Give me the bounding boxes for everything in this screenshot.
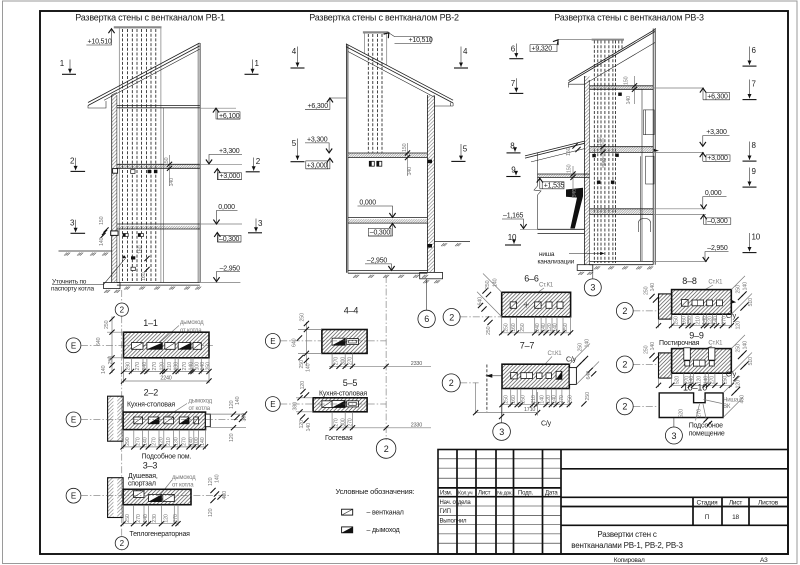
section mark 2 right [246, 157, 261, 172]
svg-text:140: 140 [650, 283, 656, 292]
svg-text:120: 120 [299, 420, 305, 429]
svg-text:270: 270 [710, 376, 716, 385]
svg-text:Уточнить по: Уточнить по [52, 279, 87, 286]
svg-text:250: 250 [104, 320, 110, 329]
right dims 3-3 [210, 488, 215, 493]
svg-text:дымоход: дымоход [180, 320, 204, 326]
level -2,950 [217, 272, 241, 281]
slab +3,000 PB-3 [590, 147, 654, 153]
svg-text:0,000: 0,000 [218, 204, 235, 211]
svg-text:640: 640 [478, 297, 484, 306]
left dims 1-1 [107, 317, 124, 374]
level +3,300 PB-2 [305, 143, 329, 152]
vent sq1 6-6 [510, 302, 516, 308]
axis to bar 7-7 [460, 382, 478, 384]
section mark 2 left [70, 157, 85, 172]
wall vent marks PB-2 [428, 160, 432, 164]
slab +6,100 [117, 105, 200, 107]
svg-text:140: 140 [142, 362, 148, 371]
legend smoke symbol [342, 527, 353, 533]
level +3,000 [217, 169, 241, 180]
svg-text:3–3: 3–3 [143, 461, 158, 471]
axis circle 6 [418, 310, 435, 327]
svg-text:ВК: ВК [723, 404, 731, 410]
vent sq3 6-6 [546, 302, 552, 308]
svg-text:640: 640 [292, 338, 298, 347]
svg-text:290: 290 [125, 437, 131, 446]
black wedge PB-3 [566, 188, 583, 229]
bar 1-1 [124, 332, 210, 358]
notch 2 9-9 [708, 348, 715, 360]
svg-text:–1,165: –1,165 [503, 213, 524, 220]
svg-text:270: 270 [152, 362, 158, 371]
section mark 3 left [70, 218, 85, 233]
vent blocks at +3,000 [113, 169, 118, 174]
svg-text:300: 300 [341, 357, 347, 366]
svg-text:270: 270 [334, 418, 340, 427]
svg-text:5: 5 [463, 145, 468, 154]
svg-text:250: 250 [504, 395, 510, 404]
svg-text:– вентканал: – вентканал [367, 509, 404, 516]
svg-text:4–4: 4–4 [344, 306, 359, 316]
svg-text:270: 270 [182, 362, 188, 371]
svg-text:160: 160 [141, 272, 147, 281]
svg-text:+3,000: +3,000 [220, 173, 241, 180]
garage roof ticks [572, 143, 577, 148]
svg-text:Условные обозначения:: Условные обозначения: [336, 487, 415, 496]
slab 0,000 PB-3 [590, 209, 654, 215]
svg-text:270: 270 [173, 514, 179, 523]
chimney left edge [118, 28, 120, 282]
roof inner line PB-3 [585, 42, 656, 84]
basement floor PB-3 [590, 261, 654, 264]
svg-text:140: 140 [602, 158, 608, 167]
svg-text:2: 2 [120, 539, 125, 548]
svg-text:Ст.К1: Ст.К1 [708, 280, 723, 286]
axis to bar 6-6 [460, 316, 501, 318]
svg-text:9–9: 9–9 [689, 330, 704, 340]
left line of niche PB-3 [537, 153, 539, 230]
level +6,100 [200, 107, 236, 109]
vent o1 3-3 [134, 491, 145, 498]
chimney edges PB-2 [364, 33, 386, 65]
svg-text:150: 150 [597, 137, 603, 146]
right dims 8-8 [731, 276, 752, 314]
svg-text:7–7: 7–7 [520, 340, 535, 350]
svg-text:Нач. отдела: Нач. отдела [440, 500, 472, 506]
svg-text:помещение: помещение [689, 430, 725, 437]
svg-text:10: 10 [508, 233, 517, 242]
right dims 10-10 [723, 376, 743, 418]
level -2,950 PB-3 [653, 260, 707, 262]
wall block 3-3 [108, 478, 114, 518]
svg-text:140: 140 [493, 278, 499, 287]
right footing PB-2 [420, 272, 443, 278]
vent double 9-9 [694, 360, 706, 366]
svg-text:Стадия: Стадия [697, 500, 719, 507]
cross mark 6-6 [524, 302, 529, 307]
axis circle 2 top [115, 303, 128, 316]
svg-text:Дата: Дата [545, 491, 558, 497]
left dims 4-4 [298, 322, 322, 366]
ground tufts under basement floor [124, 287, 130, 290]
left wall edge PB-2 [346, 44, 348, 273]
svg-text:140: 140 [743, 282, 749, 291]
svg-text:дымоход: дымоход [172, 475, 196, 481]
axis circle 2 of 8-8 [616, 303, 633, 320]
axis circle E 4-4 [265, 334, 280, 349]
smoke o4 [179, 417, 189, 424]
svg-text:+1,535: +1,535 [544, 182, 565, 189]
svg-text:400: 400 [740, 395, 746, 404]
vent o3 3-3 [163, 494, 175, 501]
tail 2-2 [206, 414, 211, 427]
section mark 9 left [506, 166, 520, 177]
svg-text:250: 250 [125, 514, 131, 523]
axis to bar 9-9 [633, 363, 658, 365]
svg-text:Кухня-столовая: Кухня-столовая [127, 401, 175, 408]
chimney dashed channels PB-3 [594, 41, 622, 264]
svg-text:250: 250 [723, 376, 729, 385]
svg-text:3: 3 [671, 431, 676, 441]
vent double 7-7 [521, 373, 533, 379]
svg-text:+6,300: +6,300 [308, 103, 329, 110]
smoke opening 7-7 [556, 371, 562, 379]
svg-text:130: 130 [174, 362, 180, 371]
axis line E 4-4 [280, 340, 386, 342]
wall footing [104, 283, 120, 289]
svg-text:2: 2 [384, 444, 389, 454]
svg-text:ГИП: ГИП [440, 509, 451, 515]
svg-text:160: 160 [138, 245, 144, 254]
bar 6-6 [502, 292, 571, 317]
svg-text:140: 140 [169, 178, 175, 187]
svg-text:270: 270 [182, 437, 188, 446]
axis line E [81, 344, 214, 346]
svg-text:120: 120 [160, 362, 166, 371]
svg-text:8–8: 8–8 [682, 276, 697, 286]
svg-text:140: 140 [553, 323, 559, 332]
svg-text:120: 120 [300, 381, 306, 390]
bottom dims 1-1 [124, 358, 210, 383]
house right edge [197, 44, 199, 283]
svg-text:250: 250 [486, 326, 492, 335]
bottom dims 6-6 [502, 317, 571, 335]
svg-text:2240: 2240 [160, 376, 171, 382]
svg-text:120: 120 [208, 477, 214, 486]
svg-text:140: 140 [572, 189, 578, 198]
bottom dims 4-4 [329, 353, 431, 368]
chimney cap [114, 26, 162, 28]
svg-text:140: 140 [306, 363, 312, 372]
ground tufts PB-3 [594, 266, 600, 269]
axis circle 2 of 10-10 [616, 398, 633, 415]
svg-text:8: 8 [752, 141, 757, 150]
footing PB-3 [577, 265, 593, 271]
interior line PB-3 [640, 89, 642, 261]
svg-text:2: 2 [256, 157, 261, 166]
svg-text:510: 510 [748, 298, 754, 307]
svg-text:Лист: Лист [478, 491, 491, 497]
svg-text:Изм.: Изм. [440, 491, 453, 497]
svg-text:140: 140 [215, 474, 221, 483]
bar 9-9 [672, 349, 732, 374]
ground line right PB-2 [435, 241, 471, 243]
vent opening 4-4 [347, 339, 359, 345]
svg-text:9: 9 [752, 167, 757, 176]
bar 5-5 [313, 398, 367, 412]
axis circle E 2-2 [66, 412, 81, 427]
svg-text:2330: 2330 [411, 422, 422, 428]
section mark 8 right [743, 141, 757, 161]
svg-text:С/у: С/у [541, 421, 552, 428]
axis line to circle 6 [426, 279, 428, 311]
svg-text:270: 270 [348, 418, 354, 427]
svg-text:520: 520 [675, 376, 681, 385]
svg-text:–2,950: –2,950 [220, 265, 241, 272]
leader to boiler note [52, 258, 126, 285]
chimney cap PB-2 [363, 31, 389, 33]
svg-text:270: 270 [722, 316, 728, 325]
svg-text:6: 6 [511, 45, 516, 54]
svg-text:10–10: 10–10 [683, 382, 707, 392]
svg-text:Лист: Лист [729, 500, 743, 507]
level -1,165 PB-3 [502, 219, 524, 228]
svg-text:400: 400 [222, 491, 228, 500]
svg-text:1: 1 [60, 59, 65, 68]
right edge PB-3 [653, 28, 655, 265]
axis circle E 5-5 [265, 397, 280, 412]
svg-text:130: 130 [174, 437, 180, 446]
svg-text:250: 250 [300, 313, 306, 322]
bottom dims 2-2 [123, 430, 205, 449]
vent blocks below +3000 slab PB-2 [369, 161, 374, 166]
svg-text:250: 250 [644, 286, 650, 295]
wall block 2-2 [108, 396, 114, 441]
section mark 4 right [454, 47, 468, 69]
section mark 4 left [291, 47, 305, 69]
chimney cap PB-3 [592, 39, 624, 41]
svg-text:210: 210 [166, 437, 172, 446]
axis line E 5-5 [280, 403, 386, 405]
axis circle 2 bottom [115, 537, 128, 550]
slab +3,000 [117, 164, 200, 168]
svg-text:2: 2 [622, 306, 627, 316]
svg-text:140: 140 [101, 365, 107, 374]
svg-text:Развертка стены с вентканалом: Развертка стены с вентканалом РВ-3 [554, 13, 704, 23]
ground line left [59, 250, 112, 252]
svg-text:Листов: Листов [758, 500, 779, 507]
smoke o2 [147, 343, 162, 350]
stamp outer box [438, 450, 788, 555]
stamp vertical main lines [457, 450, 561, 555]
smoke opening 4-4 [332, 338, 345, 345]
stamp header row thick lines [438, 488, 561, 497]
stamp right top lines [561, 469, 788, 526]
svg-text:120: 120 [159, 437, 165, 446]
left dims 5-5 [296, 398, 313, 412]
slab -1,165 PB-3 [538, 229, 585, 233]
svg-text:7: 7 [752, 80, 757, 89]
bottom dims 9-9 [659, 373, 732, 387]
dim group at +3,000 slab [602, 138, 604, 168]
section mark 7 left [509, 78, 523, 93]
svg-text:4: 4 [463, 47, 468, 56]
svg-text:от котла: от котла [172, 482, 194, 488]
roof slope PB-3 [569, 29, 656, 82]
svg-text:4: 4 [292, 47, 297, 56]
section mark 9 right [743, 167, 757, 187]
left dims 6-6 [477, 274, 502, 317]
axis circle 3 of 10-10 [673, 418, 675, 427]
svg-text:140: 140 [99, 237, 105, 246]
svg-text:140: 140 [143, 514, 149, 523]
svg-text:+6,300: +6,300 [707, 93, 728, 100]
svg-text:вентканалами РВ-1, РВ-2, РВ-3: вентканалами РВ-1, РВ-2, РВ-3 [571, 541, 683, 550]
level -0,300 PB-3 [653, 214, 706, 216]
svg-text:–0,300: –0,300 [219, 236, 240, 243]
wall hatch strip [112, 95, 117, 283]
svg-text:250: 250 [585, 392, 591, 401]
slab +6,300 PB-3 [590, 86, 654, 90]
svg-text:2: 2 [120, 306, 125, 315]
svg-text:ниша: ниша [539, 251, 555, 258]
level 0,000 PB-2 [358, 206, 393, 217]
svg-text:300: 300 [341, 418, 347, 427]
svg-text:10: 10 [752, 233, 761, 242]
left dims 9-9 [649, 353, 654, 358]
svg-text:+3,300: +3,300 [307, 136, 328, 143]
bar 8-8 [672, 290, 732, 315]
window upper PB-3 [644, 110, 655, 135]
roof slope lines [88, 43, 200, 106]
svg-text:120: 120 [229, 433, 235, 442]
axis circle 3 of 7-7 [501, 389, 503, 423]
slab 0,000 PB-2 [348, 219, 428, 223]
level +3,000 PB-2 [306, 158, 330, 169]
svg-text:Е: Е [71, 415, 76, 424]
section mark 7 right [743, 80, 757, 100]
svg-text:2: 2 [622, 402, 627, 412]
svg-text:140: 140 [540, 395, 546, 404]
svg-text:+10,510: +10,510 [409, 37, 433, 44]
axis line E 3-3 [81, 495, 230, 497]
section mark 3 right [248, 219, 263, 233]
right dims 9-9 [731, 335, 752, 373]
svg-text:+6,100: +6,100 [219, 113, 240, 120]
svg-text:270: 270 [135, 362, 141, 371]
TITLE BLOCK [438, 450, 788, 555]
dim 150/140 at +3000 slab [169, 155, 171, 186]
bar 3-3 [123, 489, 191, 504]
basement floor PB-2 [348, 270, 428, 273]
svg-text:Е: Е [71, 341, 76, 350]
svg-text:5–5: 5–5 [343, 378, 358, 388]
svg-text:140: 140 [407, 167, 413, 176]
svg-text:П: П [705, 514, 710, 521]
svg-text:140: 140 [235, 396, 241, 405]
level 0,000 PB-3 [653, 208, 706, 210]
svg-text:250: 250 [504, 323, 510, 332]
svg-text:140: 140 [306, 423, 312, 432]
svg-text:250: 250 [687, 316, 693, 325]
svg-text:–0,300: –0,300 [707, 218, 728, 225]
vent o3 [164, 417, 174, 424]
section mark 6 left [509, 44, 523, 59]
svg-text:6: 6 [424, 314, 429, 324]
vent blocks PB-3 [618, 93, 622, 96]
right wall hatch PB-2 [427, 95, 434, 272]
svg-text:250: 250 [644, 345, 650, 354]
basement vent black [131, 256, 135, 259]
axis line col mid [385, 276, 387, 440]
svg-text:паспорту котла: паспорту котла [51, 286, 95, 293]
basement floor [117, 283, 200, 286]
stamp stadia cells [561, 497, 788, 525]
vent sq4 6-6 [557, 302, 563, 308]
svg-text:140: 140 [552, 395, 558, 404]
roof inner line PB-2 [348, 52, 435, 98]
level +9,320 PB-3 [558, 39, 592, 41]
svg-text:Теплогенераторная: Теплогенераторная [129, 531, 190, 538]
level +10,510 [86, 29, 111, 45]
bottom dims 5-5 [329, 412, 431, 430]
svg-text:270: 270 [136, 514, 142, 523]
level +6,300 PB-3 [653, 87, 704, 89]
svg-text:270: 270 [697, 409, 703, 418]
svg-text:Подсобное пом.: Подсобное пом. [142, 452, 192, 460]
svg-text:3: 3 [499, 427, 504, 437]
svg-text:Ст.К1: Ст.К1 [708, 341, 723, 347]
vent o5 [194, 417, 199, 424]
svg-text:2: 2 [70, 157, 75, 166]
vent sq2 6-6 [535, 302, 541, 308]
svg-text:Развертка стены с вентканалом: Развертка стены с вентканалом РВ-2 [309, 13, 459, 23]
svg-text:Е: Е [270, 337, 275, 346]
svg-text:спортзал: спортзал [128, 480, 156, 487]
svg-text:А3: А3 [760, 557, 768, 564]
svg-text:+3,000: +3,000 [707, 155, 728, 162]
stamp left thin row lines [438, 459, 561, 543]
vent o1 [134, 417, 143, 424]
right dim lines 2-2 [210, 414, 246, 428]
vent sq2 8-8 [707, 300, 713, 306]
chimney dashed channels PB-2 [368, 34, 382, 153]
axis circle 2 mid bottom [376, 439, 396, 459]
svg-text:Развертки стен с: Развертки стен с [597, 530, 657, 539]
svg-text:160: 160 [511, 395, 517, 404]
svg-text:270: 270 [348, 357, 354, 366]
svg-text:270: 270 [152, 437, 158, 446]
ground tufts PB-2 [353, 275, 359, 278]
vent sq3 8-8 [717, 300, 723, 306]
vent o1 5-5 [322, 401, 332, 408]
svg-text:640: 640 [586, 371, 592, 380]
axis line col 2 [121, 290, 123, 537]
svg-text:150: 150 [402, 143, 408, 152]
slab +1,535 PB-3 [538, 174, 590, 177]
svg-text:120: 120 [736, 380, 742, 389]
bottom dims 7-7 [501, 389, 571, 416]
svg-text:640: 640 [96, 337, 102, 346]
slab 0,000 [117, 226, 200, 229]
legend vent symbol [342, 509, 353, 515]
svg-text:270: 270 [136, 437, 142, 446]
garage roof lines PB-3 [525, 141, 585, 158]
svg-text:140: 140 [200, 437, 206, 446]
vent o3 5-5 [347, 401, 359, 407]
svg-text:250: 250 [568, 395, 574, 404]
